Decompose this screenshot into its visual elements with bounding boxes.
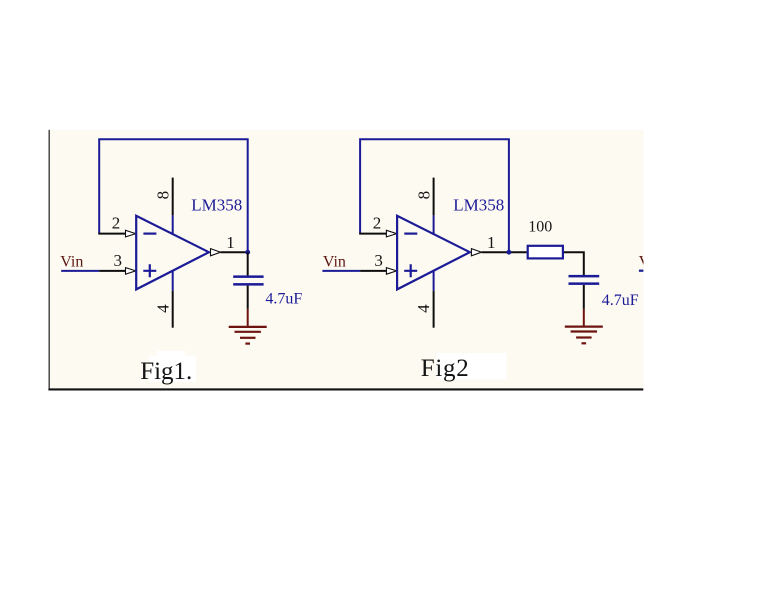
capacitor C2: [569, 275, 600, 285]
wire: Fig2 pin 2 input segment: [359, 233, 386, 235]
svg-text:Vin: Vin: [323, 254, 346, 271]
svg-text:V: V: [639, 254, 651, 271]
svg-text:4: 4: [153, 304, 172, 313]
U1A non-inverting input marker: [143, 264, 156, 277]
wire: Fig1 Vin segment (navy): [61, 270, 99, 272]
svg-text:LM358: LM358: [453, 196, 504, 215]
ground (Fig2): [565, 327, 603, 344]
svg-text:2: 2: [112, 214, 121, 233]
wire: U1A pin 8 lead (black): [172, 178, 174, 216]
sheet left border: [48, 130, 50, 390]
wire: C2 to ground (black segment): [583, 285, 585, 309]
svg-text:3: 3: [114, 251, 123, 270]
U1A pin 4 stub: [172, 270, 174, 291]
svg-text:Fig1.: Fig1.: [140, 358, 192, 385]
svg-text:Vin: Vin: [60, 254, 83, 271]
junction: node A: [245, 250, 250, 255]
wire: Fig2 Vin segment (navy): [322, 270, 360, 272]
svg-text:100: 100: [528, 219, 552, 236]
wire: C2 to ground (dark red segment): [583, 309, 585, 326]
wire: U1B pin 8 lead (black): [433, 178, 435, 216]
wire: C1 to ground (black segment): [247, 286, 249, 309]
wire: Fig2 feedback loop from node B to inverting input: [360, 139, 509, 252]
U1A inverting input marker: [143, 233, 156, 235]
svg-text:1: 1: [487, 233, 496, 252]
resistor R1: [528, 246, 563, 259]
svg-text:1: 1: [226, 233, 235, 252]
pin arrow: U1A pin 2: [126, 230, 136, 237]
svg-text:2: 2: [373, 214, 382, 233]
ground (Fig1): [229, 327, 267, 344]
wire: Fig1 pin 2 input segment: [98, 233, 125, 235]
svg-text:4.7uF: 4.7uF: [265, 290, 302, 307]
sheet background: [49, 130, 643, 390]
wire: Fig2 Vin to pin 3 (black): [360, 270, 386, 272]
U1B inverting input marker: [404, 233, 417, 235]
sheet bottom border: [48, 388, 643, 390]
wire: U1B output through node B to R1: [482, 251, 527, 253]
wire: Fig1 Vin to pin 3 (black): [99, 270, 125, 272]
pin arrow: U1B pin 2: [386, 230, 396, 237]
U1B pin 8 stub: [433, 215, 435, 234]
wire: U1A pin 4 lead (black): [172, 291, 174, 328]
svg-text:Fig2: Fig2: [421, 355, 470, 382]
capacitor C1: [233, 275, 263, 285]
caption Fig2 halo: [437, 353, 507, 380]
pin arrow: U1B pin 3: [386, 268, 396, 275]
svg-text:3: 3: [374, 251, 383, 270]
caption Fig1 halo: [149, 351, 196, 382]
U1A pin 8 stub: [172, 215, 174, 234]
wire: U1A output to node A: [221, 251, 248, 253]
svg-text:8: 8: [415, 191, 434, 200]
svg-text:LM358: LM358: [191, 196, 242, 215]
wire: C1 to ground (dark red segment): [247, 309, 249, 326]
pin arrow: U1B output: [471, 249, 481, 256]
pin arrow: U1A output: [211, 249, 221, 256]
wire: U1B pin 4 lead (black): [433, 291, 435, 328]
U1B pin 4 stub: [433, 270, 435, 291]
op-amp U1A body: [136, 216, 209, 290]
U1B non-inverting input marker: [404, 264, 417, 277]
wire: Vout stub (clipped at sheet edge): [639, 270, 644, 272]
svg-text:4: 4: [414, 304, 433, 313]
wire: Fig1 feedback loop from node A to inverting input: [99, 139, 248, 252]
svg-text:8: 8: [154, 191, 173, 200]
op-amp U1B body: [397, 216, 470, 290]
wire: R1 to C2 corner: [564, 252, 584, 275]
svg-text:4.7uF: 4.7uF: [602, 292, 639, 309]
junction: node B: [506, 250, 511, 255]
wire: node A to C1: [247, 252, 249, 275]
pin arrow: U1A pin 3: [126, 268, 136, 275]
